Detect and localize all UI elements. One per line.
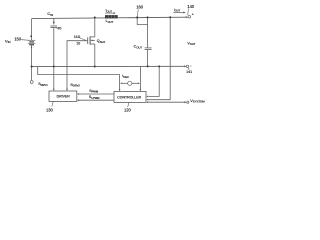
svg-text:LOUT: LOUT (106, 19, 114, 24)
svg-text:IOUT: IOUT (174, 8, 181, 13)
svg-text:140: 140 (187, 4, 195, 9)
svg-text:VIN: VIN (5, 38, 11, 44)
svg-text:QAUX: QAUX (97, 39, 106, 44)
svg-text:DRIVER: DRIVER (57, 95, 71, 99)
svg-text:SDRV1: SDRV1 (38, 82, 48, 87)
svg-text:130: 130 (46, 107, 54, 112)
svg-text:+: + (30, 34, 32, 38)
svg-text:150: 150 (14, 37, 22, 42)
svg-text:IOUT: IOUT (106, 9, 113, 14)
svg-text:CONTROLLER: CONTROLLER (117, 95, 141, 99)
svg-text:VSYSTEM: VSYSTEM (190, 98, 205, 104)
svg-text:SPWM: SPWM (89, 89, 99, 94)
svg-text:SDRV2: SDRV2 (70, 83, 80, 88)
svg-text:160: 160 (136, 5, 144, 10)
svg-text:10: 10 (76, 42, 80, 46)
svg-text:COUT: COUT (134, 45, 143, 50)
svg-text:CIN: CIN (47, 11, 53, 17)
svg-text:141: 141 (186, 70, 192, 74)
svg-text:tDEC: tDEC (122, 74, 129, 79)
svg-text:VOUT: VOUT (187, 42, 195, 47)
svg-text:+: + (192, 12, 194, 16)
svg-text:SLPWM: SLPWM (89, 95, 100, 100)
svg-text:110: 110 (74, 34, 81, 39)
svg-text:120: 120 (124, 108, 132, 113)
svg-text:70: 70 (57, 27, 61, 31)
